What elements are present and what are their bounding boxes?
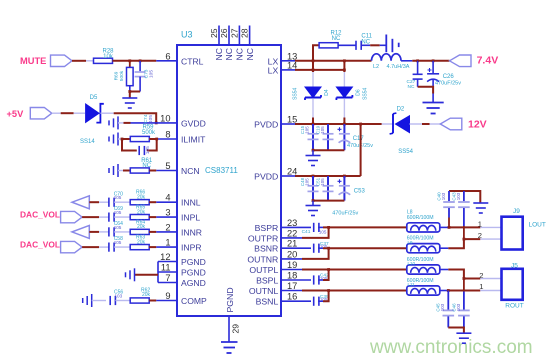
svg-text:D4: D4 xyxy=(324,89,330,96)
svg-text:COMP: COMP xyxy=(181,296,207,306)
watermark xyxy=(370,337,533,359)
capacitor C46 xyxy=(463,279,465,292)
svg-text:C11: C11 xyxy=(361,34,372,40)
svg-text:20k: 20k xyxy=(137,195,146,201)
wire R12 to C11 xyxy=(338,44,355,46)
capacitor C41 bootstrap xyxy=(314,223,319,232)
wire NCN row xyxy=(118,170,123,172)
resistor R66 xyxy=(130,200,149,205)
capacitor C19 xyxy=(327,124,329,150)
svg-text:29: 29 xyxy=(231,324,241,334)
svg-text:D5: D5 xyxy=(90,95,98,101)
svg-text:ILIMIT: ILIMIT xyxy=(181,135,206,145)
capacitor C43 xyxy=(463,191,465,201)
svg-text:1: 1 xyxy=(165,238,170,248)
svg-text:AGND: AGND xyxy=(181,278,206,288)
svg-text:OUTNR: OUTNR xyxy=(247,254,278,264)
wire BSNL jog up xyxy=(281,300,311,302)
ferrite bead L9 xyxy=(407,244,440,253)
svg-text:23: 23 xyxy=(287,218,297,228)
svg-text:DAC_VOL: DAC_VOL xyxy=(20,240,60,250)
svg-text:600R/100M: 600R/100M xyxy=(407,257,434,263)
svg-text:SS54: SS54 xyxy=(398,149,413,155)
ground AGND xyxy=(126,268,135,281)
capacitor C58 xyxy=(109,243,114,252)
svg-text:C53: C53 xyxy=(354,188,366,194)
wire pin 24 xyxy=(281,175,295,177)
left pin numbers xyxy=(160,51,170,301)
connector DAC_VOL flag L xyxy=(61,211,83,222)
svg-text:105: 105 xyxy=(145,146,151,154)
svg-text:INNR: INNR xyxy=(181,227,202,237)
node gnd bus 15 xyxy=(312,149,315,152)
node R59 loop right xyxy=(155,138,158,141)
svg-text:11: 11 xyxy=(161,263,171,273)
resistor R12 xyxy=(319,43,338,48)
resistor R61 xyxy=(130,168,149,173)
svg-text:2: 2 xyxy=(478,231,482,240)
svg-text:INPL: INPL xyxy=(181,213,200,223)
svg-text:C17: C17 xyxy=(353,136,365,142)
wire L9 to J9 pin2 xyxy=(440,247,449,249)
svg-text:26: 26 xyxy=(219,28,229,38)
wire stubs pins 12 11 7 xyxy=(158,262,177,283)
ground ILIMIT row xyxy=(109,133,118,146)
wire ILIMIT row xyxy=(118,138,123,140)
ground bottom xyxy=(456,333,471,343)
svg-text:20k: 20k xyxy=(142,292,151,298)
capacitor C1 plates xyxy=(385,35,387,53)
wire joining R69/C73 bottoms xyxy=(130,91,140,93)
svg-text:103: 103 xyxy=(456,303,461,311)
resistor R65 xyxy=(130,215,149,220)
IC U3 body xyxy=(177,45,281,316)
svg-text:C26: C26 xyxy=(443,74,455,80)
svg-text:SS54: SS54 xyxy=(362,87,368,99)
svg-text:105: 105 xyxy=(148,115,154,123)
wire +5V to D5 xyxy=(52,112,61,114)
wire OUTPR jog up xyxy=(281,237,302,239)
svg-text:R69: R69 xyxy=(114,71,120,80)
svg-text:D2: D2 xyxy=(397,106,405,112)
wire pin 13 xyxy=(281,60,295,62)
node OUTNR join xyxy=(327,247,330,250)
wire BSPL jog up xyxy=(281,279,311,281)
svg-text:105: 105 xyxy=(305,126,310,134)
capacitor C27 xyxy=(417,61,419,75)
wire branch up xyxy=(313,45,319,61)
ground below C73/R69 xyxy=(122,98,137,108)
svg-text:600R/100M: 600R/100M xyxy=(407,236,434,242)
ground bus pin15 group xyxy=(313,149,344,151)
svg-text:NCN: NCN xyxy=(181,166,200,176)
svg-text:MUTE: MUTE xyxy=(20,56,46,66)
svg-text:25: 25 xyxy=(209,28,219,38)
wire INPR row xyxy=(82,246,99,248)
capacitor C56 xyxy=(110,296,115,305)
wire C11 onward xyxy=(361,44,370,46)
svg-text:CS83711: CS83711 xyxy=(205,166,238,175)
wire bottom bus xyxy=(448,328,464,333)
node C26 tap xyxy=(432,59,435,62)
svg-text:105: 105 xyxy=(114,240,122,245)
svg-text:J9: J9 xyxy=(513,208,520,215)
svg-text:NC: NC xyxy=(408,84,415,90)
svg-text:4: 4 xyxy=(165,193,170,203)
wire L8 to J9 pin1 xyxy=(440,226,449,228)
capacitor C64 xyxy=(109,227,114,236)
connector DAC_VOL flag R xyxy=(61,241,83,252)
wire R28 to pin 6 xyxy=(113,60,157,62)
svg-text:470uF/25v: 470uF/25v xyxy=(435,81,461,87)
capacitor loop below R59 xyxy=(122,139,137,151)
node rail15 C17 xyxy=(343,123,346,126)
wire R66 to pin 4 xyxy=(149,201,156,203)
svg-text:PVDD: PVDD xyxy=(254,120,278,130)
wire R64 to pin 2 xyxy=(149,231,156,233)
svg-text:600R/100M: 600R/100M xyxy=(407,278,434,284)
wire R61 to pin 5 xyxy=(149,170,156,172)
svg-text:DAC_VOL: DAC_VOL xyxy=(20,210,60,220)
resistor R28 xyxy=(94,58,113,63)
left pin names xyxy=(181,56,207,306)
connector 7.4V flag xyxy=(450,55,472,67)
svg-text:18: 18 xyxy=(287,271,297,281)
wire INNL row xyxy=(89,201,99,203)
ground pin15 group xyxy=(306,156,321,166)
svg-text:BSPR: BSPR xyxy=(255,223,279,233)
svg-text:OUTPL: OUTPL xyxy=(249,265,278,275)
svg-text:4.7uH/3A: 4.7uH/3A xyxy=(387,64,410,70)
capacitor C51 xyxy=(327,176,329,201)
svg-text:U3: U3 xyxy=(181,30,193,40)
capacitor C73 vertical xyxy=(139,61,141,71)
svg-text:BSNR: BSNR xyxy=(254,244,278,254)
svg-text:NC: NC xyxy=(224,48,234,60)
wire INNR row xyxy=(89,231,99,233)
svg-text:C41: C41 xyxy=(302,229,311,235)
svg-text:7: 7 xyxy=(165,273,170,283)
svg-text:105: 105 xyxy=(114,195,122,200)
wire D2 to 12V xyxy=(410,123,423,125)
svg-text:3: 3 xyxy=(165,208,170,218)
ground below C26 xyxy=(423,103,444,114)
top pin numbers 25-28 rotated xyxy=(209,28,250,38)
svg-text:105: 105 xyxy=(320,178,325,186)
svg-text:PGND: PGND xyxy=(181,268,206,278)
node +5V to GVDD xyxy=(155,122,158,125)
right pin names xyxy=(247,56,278,306)
svg-text:10k: 10k xyxy=(103,54,114,60)
wire GVDD row xyxy=(118,122,124,124)
svg-text:12V: 12V xyxy=(468,118,487,130)
connector +5V flag xyxy=(30,108,52,119)
svg-text:INNL: INNL xyxy=(181,198,201,208)
triangle symbol row INNR xyxy=(72,225,89,238)
pin 29 stub xyxy=(228,316,230,342)
svg-text:PGND: PGND xyxy=(225,287,235,312)
node BSNL join xyxy=(327,289,330,292)
svg-text:9: 9 xyxy=(165,291,170,301)
svg-text:5: 5 xyxy=(165,161,170,171)
node C46 tap xyxy=(463,277,466,280)
capacitor C69 xyxy=(109,213,114,222)
node R69/C73 join xyxy=(128,90,131,93)
node OUTPR join xyxy=(327,226,330,229)
wire R62 to pin 9 xyxy=(149,300,156,302)
capacitor C17 polarized xyxy=(343,124,345,150)
svg-text:8: 8 xyxy=(165,130,170,140)
node C40 tap xyxy=(448,226,451,229)
capacitor C39 bootstrap xyxy=(314,297,319,306)
ferrite bead L8 xyxy=(407,223,440,232)
svg-text:SS14: SS14 xyxy=(80,139,95,145)
capacitor C37 bootstrap xyxy=(314,244,319,253)
svg-text:20: 20 xyxy=(287,249,297,259)
capacitor C70 xyxy=(109,198,114,207)
capacitor C42 bootstrap xyxy=(314,275,319,284)
node gnd bus 24 xyxy=(312,199,315,202)
svg-text:105: 105 xyxy=(148,70,154,78)
svg-text:NC: NC xyxy=(245,48,255,60)
svg-text:103: 103 xyxy=(456,192,461,200)
ferrite bead L11 xyxy=(407,286,440,295)
svg-text:2: 2 xyxy=(479,271,483,280)
ground pin24 group xyxy=(306,206,321,216)
svg-text:ROUT: ROUT xyxy=(505,303,523,310)
node rail24 C53 xyxy=(343,175,346,178)
svg-text:20k: 20k xyxy=(137,224,146,230)
wire pin 14 xyxy=(281,69,295,71)
svg-text:22: 22 xyxy=(287,228,297,238)
node C27 tap xyxy=(416,59,419,62)
junction node R69 xyxy=(128,59,131,62)
svg-text:D6: D6 xyxy=(356,89,362,96)
svg-text:OUTPR: OUTPR xyxy=(248,233,278,243)
svg-text:103: 103 xyxy=(441,192,446,200)
connector 12V flag xyxy=(440,118,462,130)
svg-text:16: 16 xyxy=(287,292,297,302)
diode D2 SS54 xyxy=(392,114,394,133)
svg-text:17: 17 xyxy=(287,281,297,291)
svg-text:BSPL: BSPL xyxy=(256,276,278,286)
node C43 tap xyxy=(463,238,466,241)
ground top xyxy=(473,203,488,213)
wire MUTE to R28 xyxy=(72,60,86,62)
svg-text:LX: LX xyxy=(268,65,279,75)
capacitor C53 polarized xyxy=(343,176,345,201)
svg-text:21: 21 xyxy=(287,239,297,249)
svg-text:NC: NC xyxy=(235,48,245,60)
node LX13-D6 xyxy=(343,59,346,62)
node rail15 to rail24 xyxy=(359,123,362,126)
svg-text:L2: L2 xyxy=(373,64,379,70)
right pin numbers xyxy=(287,51,297,301)
wire INPL row xyxy=(82,216,99,218)
resistor R59 xyxy=(130,136,149,141)
wire L11 to J5 pin1 xyxy=(440,290,449,292)
svg-text:INPR: INPR xyxy=(181,243,202,253)
capacitor C11 xyxy=(356,41,361,50)
connector MUTE flag xyxy=(51,55,73,66)
svg-text:500k: 500k xyxy=(142,130,156,136)
pins 25-28 stubs xyxy=(219,26,250,46)
svg-text:NC: NC xyxy=(142,163,151,169)
svg-text:600R/100M: 600R/100M xyxy=(407,215,434,221)
svg-text:SS54: SS54 xyxy=(293,87,299,99)
resistor R62 xyxy=(130,298,149,303)
diode D5 SS14 xyxy=(86,104,99,122)
svg-text:20k: 20k xyxy=(137,239,146,245)
wire caps to ground xyxy=(418,87,434,94)
wire L10 to J5 pin2 xyxy=(440,269,449,271)
svg-text:PVDD: PVDD xyxy=(254,172,278,182)
top NC pin names rotated xyxy=(214,48,255,60)
wire L2 to 7.4V xyxy=(401,60,412,62)
node BSPL join xyxy=(327,268,330,271)
svg-text:6: 6 xyxy=(165,51,170,61)
ground below pin 29 xyxy=(221,342,238,353)
svg-text:GVDD: GVDD xyxy=(181,118,206,128)
wire R63 to pin 1 xyxy=(149,246,156,248)
ferrite bead L10 xyxy=(407,265,440,274)
svg-text:105: 105 xyxy=(320,126,325,134)
capacitor C45 xyxy=(447,291,449,310)
svg-text:12: 12 xyxy=(160,252,170,262)
wire LX vertical D4 xyxy=(312,61,314,72)
junction node C73 xyxy=(139,59,142,62)
svg-text:105: 105 xyxy=(305,178,310,186)
capacitor C26 polarized xyxy=(432,61,434,74)
wire OUTNR jog up xyxy=(281,258,302,260)
svg-text:PGND: PGND xyxy=(181,257,206,267)
ground GVDD row xyxy=(109,116,118,129)
svg-text:103: 103 xyxy=(440,303,445,311)
svg-text:105: 105 xyxy=(319,229,327,234)
node LX14-D6 xyxy=(343,69,346,72)
node LX13-D4 xyxy=(312,59,315,62)
wire top bus xyxy=(449,191,480,203)
svg-text:CTRL: CTRL xyxy=(181,56,204,66)
svg-text:105: 105 xyxy=(114,210,122,215)
resistor R69 vertical xyxy=(129,61,131,68)
svg-text:19: 19 xyxy=(287,260,297,270)
triangle symbol row INNL xyxy=(72,196,89,209)
svg-text:OUTNL: OUTNL xyxy=(249,286,279,296)
svg-text:J5: J5 xyxy=(511,263,518,270)
wire R65 to pin 3 xyxy=(149,216,156,218)
svg-text:500k: 500k xyxy=(119,70,125,81)
svg-text:20k: 20k xyxy=(137,209,146,215)
svg-text:1: 1 xyxy=(479,282,483,291)
svg-text:2: 2 xyxy=(165,222,170,232)
wire rail15 to rail24 vertical xyxy=(360,124,362,176)
wire pin 15 xyxy=(281,123,295,125)
ground NCN row xyxy=(109,164,118,177)
capacitor C40 xyxy=(448,191,450,201)
svg-text:LOUT: LOUT xyxy=(529,221,546,228)
wire LX vertical D6 xyxy=(343,61,345,72)
wire R59 to pin 8 xyxy=(149,138,156,140)
node rail15 C15 xyxy=(312,123,315,126)
svg-text:+5V: +5V xyxy=(7,109,25,119)
svg-text:10: 10 xyxy=(160,113,170,123)
node rail24 C48 xyxy=(312,175,315,178)
resistor R64 xyxy=(130,229,149,234)
svg-text:103: 103 xyxy=(115,294,123,299)
svg-text:BSNL: BSNL xyxy=(256,297,279,307)
svg-text:NC: NC xyxy=(332,36,341,42)
node R59 loop left xyxy=(121,138,124,141)
node LX14-D4 xyxy=(312,69,315,72)
diode D4 SS54 xyxy=(305,87,321,100)
wire D5 to GVDD feed xyxy=(100,112,113,114)
node C45 tap xyxy=(447,289,450,292)
ground COMP row xyxy=(83,294,92,307)
diode D6 SS54 xyxy=(336,87,352,100)
resistor R63 xyxy=(130,245,149,250)
svg-text:27: 27 xyxy=(229,28,239,38)
ground bus pin24 group xyxy=(313,200,344,202)
svg-text:NC: NC xyxy=(214,48,224,60)
svg-text:470uF/25v: 470uF/25v xyxy=(332,211,358,217)
wire ground feed xyxy=(135,274,159,276)
capacitor C15 xyxy=(312,124,314,150)
svg-text:105: 105 xyxy=(114,225,122,230)
svg-text:1: 1 xyxy=(478,219,482,228)
capacitor C48 xyxy=(312,176,314,201)
svg-text:7.4V: 7.4V xyxy=(477,55,499,67)
svg-text:28: 28 xyxy=(240,28,250,38)
